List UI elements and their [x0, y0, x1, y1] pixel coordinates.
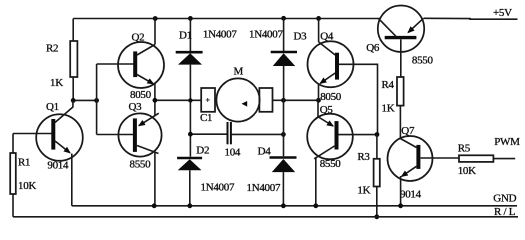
wire: R5 to PWM input: [493, 158, 515, 160]
wire: Q5 emitter up to motor-right node: [317, 100, 319, 117]
svg-text:R1: R1: [18, 157, 30, 169]
wire: Q3 collector down to GND: [154, 152, 156, 206]
svg-text:D3: D3: [294, 30, 308, 42]
svg-text:8550: 8550: [320, 158, 342, 170]
wire: Q2/Q3 base column: [96, 64, 98, 135]
transistor Q6: [378, 6, 424, 52]
wire: Q4 emitter to motor-right node: [318, 84, 320, 101]
resistor R2: [72, 19, 74, 42]
motor M: [216, 78, 259, 121]
node: junction at D3/D4 column: [281, 98, 286, 103]
svg-text:R4: R4: [382, 79, 395, 91]
wire: motor left terminal: [155, 99, 201, 101]
node: rail junction at Q2 collector: [153, 16, 158, 21]
node: junction Q4/Q5 bases with R3: [375, 132, 380, 137]
svg-text:D4: D4: [258, 146, 272, 158]
wire: GND rail: [72, 205, 517, 207]
wire: stub to Q3 base: [97, 134, 133, 136]
svg-text:C1: C1: [200, 112, 212, 124]
svg-text:GND: GND: [493, 193, 516, 205]
svg-text:8050: 8050: [130, 89, 152, 101]
node: rail junction at D1: [188, 16, 193, 21]
svg-text:Q7: Q7: [401, 125, 415, 137]
node: GND junction D4: [281, 203, 286, 208]
motor brush polarity mark: [206, 98, 210, 102]
svg-text:1K: 1K: [382, 103, 395, 115]
wire: R2/Q1-collector node to base column: [73, 99, 96, 101]
wire: capacitor branch right: [231, 133, 284, 135]
svg-text:1N4007: 1N4007: [247, 182, 281, 194]
svg-text:8050: 8050: [320, 91, 342, 103]
transistor Q7: [388, 136, 433, 181]
motor rotation arrow: [242, 101, 248, 107]
svg-text:Q3: Q3: [129, 101, 143, 113]
svg-text:R / L: R / L: [494, 206, 516, 218]
diode D4: [283, 100, 285, 156]
node: GND junction Q3 collector: [152, 203, 157, 208]
transistor Q1: [36, 114, 83, 161]
svg-text:Q2: Q2: [132, 31, 145, 43]
wire: top rail (Q6 collector bus): [73, 18, 380, 20]
node: R3 junction on R/L line: [374, 214, 379, 219]
svg-text:1N4007: 1N4007: [249, 29, 283, 41]
node: junction Q4/Q5 emitters: [316, 98, 321, 103]
node: rail junction at D3: [281, 16, 286, 21]
wire: Q2 emitter to motor-left node: [154, 84, 156, 100]
wire: capacitor branch left: [190, 133, 227, 135]
svg-text:1K: 1K: [357, 184, 370, 196]
svg-text:1K: 1K: [50, 77, 63, 89]
svg-text:1N4007: 1N4007: [203, 29, 237, 41]
svg-text:Q4: Q4: [320, 30, 334, 42]
transistor Q3: [118, 113, 161, 156]
resistor R4: [397, 77, 404, 106]
node: junction Q2/Q3 base column: [94, 98, 99, 103]
svg-text:D2: D2: [196, 144, 209, 156]
wire: Q6 base down to R4: [400, 39, 402, 77]
node: junction D3/D4 column with cap wire: [281, 132, 286, 137]
wire: Q7 base to R5: [421, 157, 460, 159]
diode D2: [189, 100, 191, 156]
node: GND junction Q5 collector: [313, 203, 318, 208]
node: junction D1/D2 column with cap wire: [188, 132, 193, 137]
wire: stub to Q2 base: [97, 63, 134, 65]
svg-text:R2: R2: [46, 43, 58, 55]
svg-text:R3: R3: [357, 151, 370, 163]
node: GND junction D2: [187, 203, 192, 208]
wire: Q2 collector to rail: [154, 19, 156, 45]
wire: Q1 collector up to node: [72, 100, 74, 107]
transistor Q4: [308, 41, 354, 87]
resistor R1: [12, 134, 14, 154]
transistor Q2: [118, 42, 164, 88]
svg-text:Q1: Q1: [46, 101, 59, 113]
wire: R/L control line: [13, 216, 518, 218]
resistor R5: [459, 155, 493, 162]
resistor R3: [376, 135, 378, 159]
wire: Q5 base to right column: [339, 134, 378, 136]
capacitor C1: [227, 122, 229, 144]
svg-text:Q6: Q6: [366, 42, 380, 54]
svg-text:M: M: [234, 66, 244, 78]
node: rail junction at Q4 collector: [316, 16, 321, 21]
node: junction R2 / Q1 collector: [71, 98, 76, 103]
wire: Q5 collector down to GND: [315, 157, 317, 206]
wire: +5V supply feed to Q6 emitter: [424, 17, 518, 20]
diode D1: [189, 18, 191, 51]
svg-text:R5: R5: [458, 143, 471, 155]
wire: Q1 emitter down to GND: [71, 154, 73, 206]
svg-text:Q5: Q5: [320, 104, 334, 116]
svg-text:9014: 9014: [400, 188, 422, 200]
svg-text:8550: 8550: [412, 54, 434, 66]
wire: Q1 base lead: [13, 133, 52, 135]
node: junction Q2/Q3 emitters: [153, 98, 158, 103]
wire: Q7 emitter down to GND: [400, 176, 402, 206]
svg-text:8550: 8550: [130, 159, 152, 171]
wire: motor right terminal: [273, 99, 319, 101]
svg-text:D1: D1: [179, 29, 192, 41]
svg-text:9014: 9014: [47, 160, 69, 172]
diode D3: [283, 18, 285, 51]
svg-text:104: 104: [225, 147, 241, 159]
svg-text:1N4007: 1N4007: [201, 182, 235, 194]
wire: Q3 emitter up to motor-left node: [154, 100, 156, 116]
svg-text:+5V: +5V: [493, 7, 512, 19]
svg-text:PWM: PWM: [494, 136, 520, 148]
transistor Q5: [307, 114, 353, 160]
node: junction D1/D2 column: [188, 98, 192, 102]
wire: Q4 collector to rail: [318, 18, 320, 42]
node: GND junction Q7 emitter: [398, 203, 403, 208]
svg-text:10K: 10K: [458, 165, 476, 177]
wire: Q4 base to right column: [339, 64, 378, 134]
svg-text:10K: 10K: [18, 180, 36, 192]
